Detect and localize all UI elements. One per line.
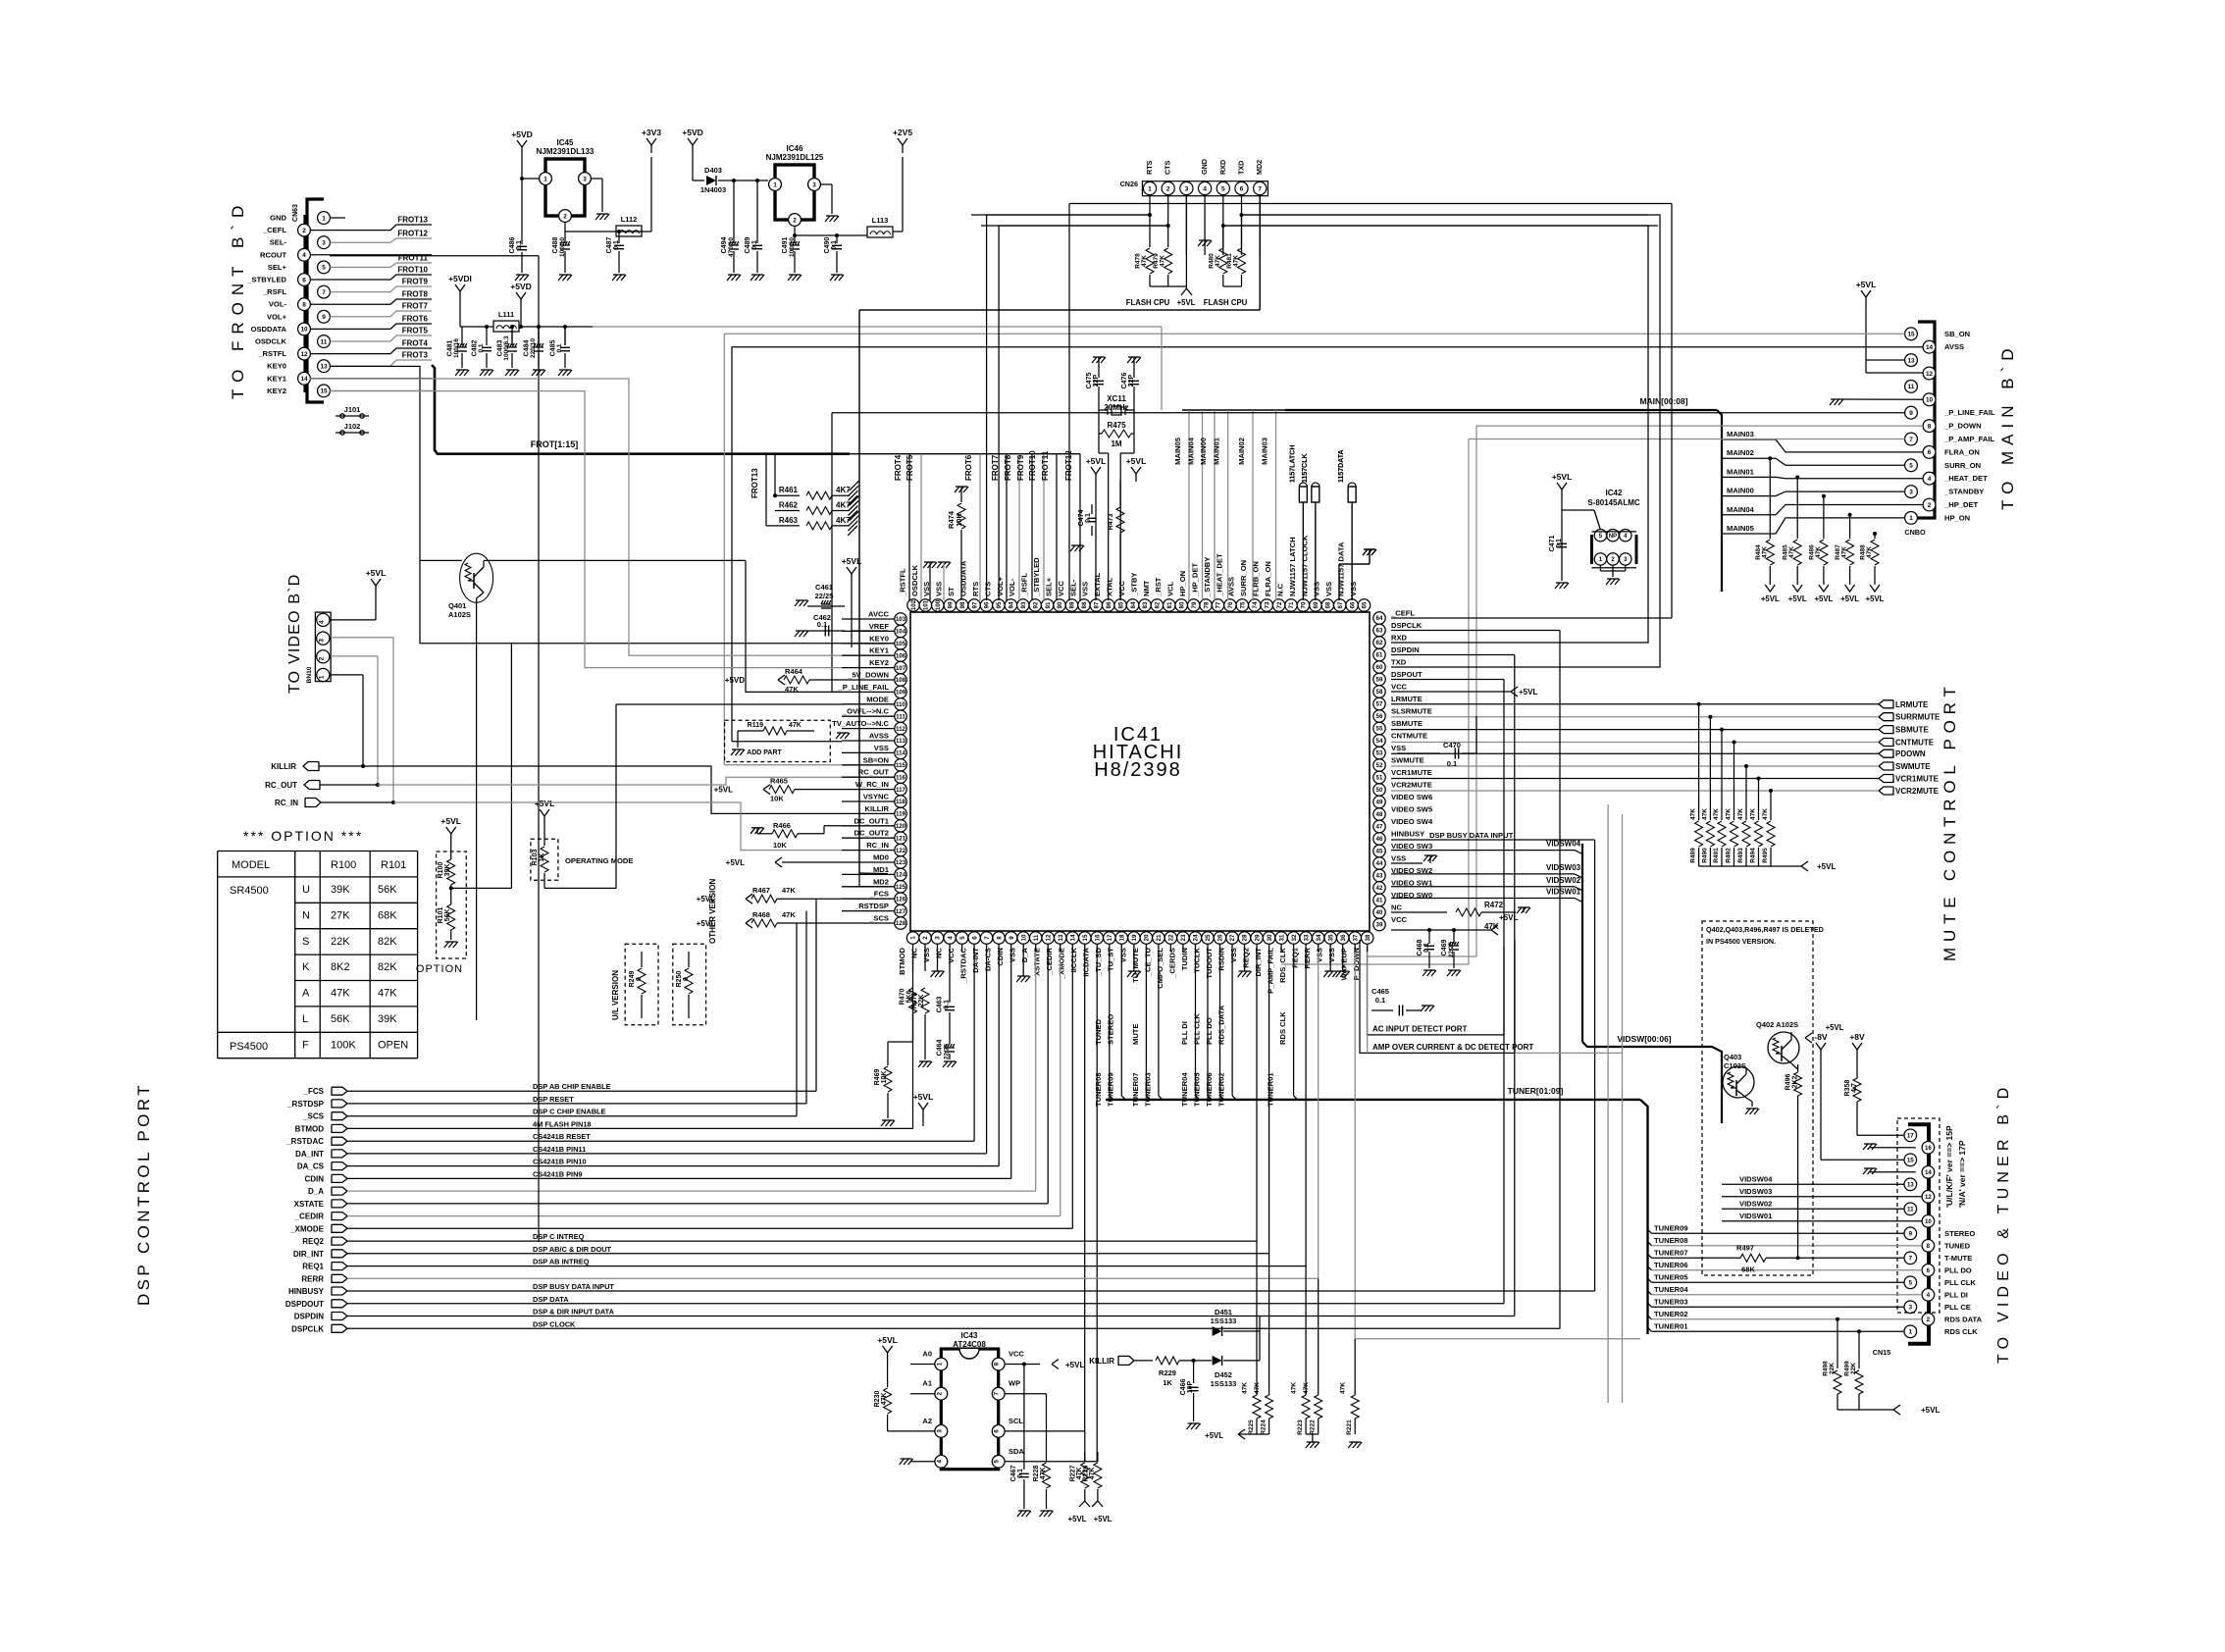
svg-text:MD1: MD1 [873,865,890,874]
svg-text:1: 1 [910,936,917,940]
svg-text:47K: 47K [331,988,350,1000]
svg-text:KILLIR: KILLIR [271,762,296,771]
svg-text:R103: R103 [532,850,539,866]
svg-text:470/10: 470/10 [728,237,735,257]
svg-text:_TU_SD: _TU_SD [1094,947,1103,977]
svg-text:32: 32 [1291,934,1298,941]
svg-text:82K: 82K [378,936,397,948]
svg-text:KEY2: KEY2 [869,658,889,667]
svg-text:55: 55 [1376,726,1383,733]
svg-text:_RSTDSP: _RSTDSP [286,1100,325,1109]
svg-text:VSS: VSS [1229,948,1238,962]
svg-text:XTAL: XTAL [1106,577,1114,596]
svg-text:14: 14 [300,376,308,383]
svg-text:DIR_INT: DIR_INT [293,1250,324,1259]
svg-text:FROT6: FROT6 [964,454,973,481]
svg-text:A: A [302,988,310,1000]
svg-text:VSS: VSS [874,744,889,752]
svg-text:102: 102 [910,599,917,610]
svg-text:KILLIR: KILLIR [865,804,890,813]
svg-text:SR4500: SR4500 [230,885,269,897]
svg-text:MAIN02: MAIN02 [1727,448,1754,457]
svg-text:OSDCLK: OSDCLK [910,564,919,596]
svg-text:47K: 47K [782,910,796,919]
svg-text:VCC: VCC [1057,580,1065,596]
svg-text:1K: 1K [1163,1378,1172,1387]
svg-text:38: 38 [1365,934,1371,941]
svg-text:_P_AMP_FAIL: _P_AMP_FAIL [1943,435,1994,443]
svg-text:+5VL: +5VL [726,858,745,867]
svg-text:12: 12 [300,351,308,358]
svg-text:DSP CONTROL PORT: DSP CONTROL PORT [134,1082,153,1306]
svg-text:IN PS4500 VERSION.: IN PS4500 VERSION. [1706,937,1776,946]
svg-text:44: 44 [1376,860,1383,867]
svg-text:R461: R461 [779,486,799,494]
svg-text:C470: C470 [1443,741,1461,749]
svg-text:3: 3 [318,639,325,643]
svg-text:4: 4 [318,620,325,624]
svg-text:RC_OUT: RC_OUT [858,768,890,777]
svg-text:WP: WP [1009,1379,1020,1388]
svg-text:8: 8 [1928,423,1932,430]
svg-text:75: 75 [1240,601,1247,608]
svg-text:125: 125 [896,884,906,891]
svg-text:R463: R463 [779,516,799,525]
svg-text:KEY2: KEY2 [267,387,286,395]
svg-text:22K: 22K [918,995,925,1007]
svg-text:NJM2391DL133: NJM2391DL133 [537,147,595,156]
svg-text:NJW1157 LATCH: NJW1157 LATCH [1288,537,1297,596]
svg-text:4: 4 [302,252,306,259]
svg-text:HINBUSY: HINBUSY [288,1287,325,1296]
svg-text:+5VL: +5VL [440,816,461,826]
svg-text:R229: R229 [1159,1368,1176,1377]
svg-text:F: F [302,1039,309,1051]
svg-text:66: 66 [1349,601,1356,608]
svg-text:SB=ON: SB=ON [863,755,889,764]
svg-text:PLL DO: PLL DO [1944,1265,1972,1274]
svg-text:R495: R495 [1762,848,1769,863]
svg-text:_P_DOWN: _P_DOWN [1943,422,1982,431]
svg-text:ST: ST [947,587,956,596]
svg-text:TUNER02: TUNER02 [1217,1072,1226,1107]
svg-text:23: 23 [1180,934,1187,941]
svg-text:47K: 47K [1713,808,1720,820]
svg-text:VCC: VCC [947,947,956,963]
svg-text:39K: 39K [331,884,350,896]
svg-text:CDIN: CDIN [996,948,1005,966]
svg-text:TO VIDEO & TUNER B`D: TO VIDEO & TUNER B`D [1995,1082,2012,1364]
svg-text:56: 56 [1376,713,1383,720]
svg-text:R472: R472 [1484,901,1504,909]
svg-text:_P_LINE_FAIL: _P_LINE_FAIL [1943,408,1995,417]
svg-text:9: 9 [1009,936,1015,940]
svg-text:0.1: 0.1 [613,240,620,250]
svg-text:PLL CE: PLL CE [1944,1303,1971,1312]
svg-text:AT24C08: AT24C08 [953,1340,986,1349]
svg-text:MD2: MD2 [873,877,889,886]
svg-text:RTS: RTS [971,582,980,596]
svg-text:10K: 10K [881,1071,888,1084]
svg-text:MODE: MODE [866,695,889,703]
svg-text:MAIN03: MAIN03 [1727,430,1754,439]
svg-text:1K: 1K [539,853,545,862]
svg-text:28: 28 [1242,934,1249,941]
svg-text:R469: R469 [874,1069,881,1086]
svg-text:R468: R468 [752,910,770,919]
svg-text:104: 104 [896,629,906,636]
svg-text:111: 111 [896,713,906,720]
svg-text:*** OPTION ***: *** OPTION *** [243,828,363,844]
svg-text:OPERATING MODE: OPERATING MODE [565,856,633,865]
svg-text:AMP OVER CURRENT & DC DETECT P: AMP OVER CURRENT & DC DETECT PORT [1372,1043,1533,1052]
svg-text:68: 68 [1325,601,1332,608]
svg-text:24: 24 [1193,934,1200,941]
svg-text:22K: 22K [1829,1363,1836,1374]
svg-text:13: 13 [1907,1182,1914,1189]
svg-text:C487: C487 [606,237,613,254]
svg-text:IICDATA: IICDATA [1082,947,1091,976]
svg-text:D403: D403 [704,166,722,175]
svg-text:0: 0 [636,977,643,981]
svg-text:100K: 100K [331,1039,356,1051]
svg-text:MAIN[00:08]: MAIN[00:08] [1639,396,1687,406]
svg-text:1157DATA: 1157DATA [1338,449,1345,483]
svg-text:OPEN: OPEN [378,1039,408,1051]
svg-text:1157LATCH: 1157LATCH [1289,445,1296,483]
svg-text:9: 9 [1909,410,1913,417]
svg-text:0.1: 0.1 [1447,759,1457,768]
svg-text:95: 95 [996,601,1003,608]
svg-text:96: 96 [984,601,991,608]
svg-text:12: 12 [1925,1194,1932,1201]
svg-text:47K: 47K [1254,1382,1261,1394]
svg-text:+5VD: +5VD [682,128,703,137]
svg-text:1SS133: 1SS133 [1211,1316,1237,1325]
svg-text:120: 120 [896,823,906,830]
svg-text:0.1: 0.1 [1556,539,1563,548]
svg-text:_XMODE: _XMODE [289,1224,324,1233]
svg-text:VCC: VCC [1391,915,1408,924]
svg-text:TUCLK: TUCLK [1192,947,1201,972]
svg-text:4M FLASH PIN18: 4M FLASH PIN18 [533,1119,592,1128]
svg-text:MAIN00: MAIN00 [1199,438,1208,465]
svg-text:10K: 10K [955,513,963,527]
svg-text:NJW1157 DATA: NJW1157 DATA [1337,542,1346,596]
svg-text:AVCC: AVCC [868,610,889,619]
svg-text:5: 5 [1599,534,1603,540]
svg-text:C468: C468 [1417,940,1423,956]
svg-text:22P: 22P [1128,374,1135,387]
svg-text:0.1: 0.1 [1423,943,1430,953]
svg-text:SWMUTE: SWMUTE [1391,756,1424,765]
svg-text:Q402 A102S: Q402 A102S [1756,1020,1798,1029]
svg-text:22P: 22P [1093,374,1100,387]
svg-text:TUNER08: TUNER08 [1094,1072,1103,1107]
svg-text:0.1: 0.1 [556,343,563,352]
svg-text:+5VL: +5VL [1126,456,1147,466]
svg-text:80: 80 [1178,601,1185,608]
svg-text:R475: R475 [1107,421,1126,430]
svg-text:PDOWN: PDOWN [1895,749,1926,758]
svg-text:FLRA_ON: FLRA_ON [1944,447,1980,456]
svg-text:TXD: TXD [1391,658,1407,667]
svg-text:KILLIR: KILLIR [1089,1357,1114,1366]
svg-text:DIR_INT: DIR_INT [1254,948,1263,977]
svg-text:FROT9: FROT9 [1016,454,1025,481]
svg-text:H8/2398: H8/2398 [1094,759,1182,781]
svg-text:VCR2MUTE: VCR2MUTE [1895,787,1940,796]
svg-text:107: 107 [896,665,906,672]
svg-text:R465: R465 [770,777,788,786]
svg-text:8: 8 [302,302,306,309]
svg-text:+5VL: +5VL [1499,913,1518,922]
svg-text:_OVFL-->N.C: _OVFL-->N.C [842,707,890,716]
svg-text:TUNER05: TUNER05 [1654,1272,1688,1281]
svg-text:45: 45 [1376,849,1383,855]
svg-text:R490: R490 [1701,848,1708,863]
svg-text:_RSTFL: _RSTFL [257,349,286,358]
svg-text:TUNER08: TUNER08 [1654,1236,1688,1245]
svg-text:SWMUTE: SWMUTE [1895,762,1931,771]
svg-text:47K: 47K [789,722,802,729]
svg-text:VSS: VSS [1349,582,1358,596]
svg-text:VIDSW01: VIDSW01 [1546,888,1581,897]
svg-text:C491: C491 [782,237,789,254]
svg-text:2K2: 2K2 [1792,1075,1799,1088]
svg-text:RDS CLK: RDS CLK [1278,1011,1287,1045]
svg-text:R489: R489 [1690,848,1697,863]
svg-text:27: 27 [1229,934,1236,941]
svg-text:46: 46 [1376,836,1383,843]
svg-text:NJW1157 CLOCK: NJW1157 CLOCK [1300,535,1309,596]
svg-text:OPTION: OPTION [416,963,463,975]
svg-text:21: 21 [1156,934,1163,941]
svg-text:A2: A2 [922,1417,932,1425]
svg-text:22K: 22K [331,936,350,948]
svg-text:86: 86 [1106,601,1112,608]
svg-text:51: 51 [1376,775,1383,782]
svg-text:+5VL: +5VL [1094,1515,1112,1523]
svg-text:+5VL: +5VL [1068,1515,1087,1523]
svg-text:_SCS: _SCS [302,1112,325,1121]
svg-text:RDS_DATA: RDS_DATA [1217,1005,1226,1045]
svg-text:DSP & DIR INPUT DATA: DSP & DIR INPUT DATA [533,1308,615,1316]
svg-text:R230: R230 [874,1391,881,1408]
svg-text:_RST: _RST [1154,577,1163,597]
svg-text:47K: 47K [1141,255,1148,267]
svg-text:FROT8: FROT8 [402,290,429,299]
svg-text:0: 0 [683,977,690,981]
svg-text:74: 74 [1252,601,1259,608]
svg-text:KEY1: KEY1 [869,646,890,655]
svg-text:DSPDOUT: DSPDOUT [285,1300,324,1309]
svg-text:CS4241B PIN10: CS4241B PIN10 [533,1158,587,1166]
svg-text:1: 1 [1909,515,1913,522]
svg-text:R119: R119 [748,722,763,729]
svg-text:R466: R466 [773,821,791,830]
svg-text:+5VL: +5VL [1761,594,1780,603]
svg-text:_P_LINE_FAIL: _P_LINE_FAIL [838,683,890,692]
svg-text:FROT13: FROT13 [750,468,759,498]
svg-text:CNBO: CNBO [1904,528,1926,537]
svg-text:85: 85 [1117,601,1124,608]
svg-text:R249: R249 [629,971,636,988]
svg-text:39: 39 [1376,922,1383,929]
svg-text:R491: R491 [1713,848,1720,863]
svg-text:11: 11 [1907,1207,1914,1213]
svg-text:56K: 56K [378,884,397,896]
svg-text:A102S: A102S [448,610,471,619]
svg-text:91: 91 [1045,601,1052,608]
svg-text:SCL: SCL [1009,1417,1023,1425]
svg-text:56K: 56K [444,909,451,922]
svg-text:+5VL: +5VL [535,799,555,808]
svg-text:4K7: 4K7 [836,486,851,494]
svg-text:VSS: VSS [1118,948,1127,962]
svg-text:DSPCLK: DSPCLK [291,1324,324,1333]
svg-text:-8V: -8V [1814,1032,1828,1042]
svg-text:31: 31 [1278,934,1285,941]
svg-text:0.1: 0.1 [831,240,838,250]
svg-text:R101: R101 [438,907,444,924]
svg-text:+2V5: +2V5 [893,128,912,137]
svg-text:6: 6 [1927,1267,1931,1274]
svg-text:124: 124 [896,872,906,879]
svg-text:NMT: NMT [1142,580,1151,596]
svg-text:22/25: 22/25 [815,592,834,600]
svg-text:0.1: 0.1 [1017,1469,1024,1478]
svg-text:DSP BUSY DATA INPUT: DSP BUSY DATA INPUT [1429,831,1514,840]
svg-text:47K: 47K [1303,1382,1310,1394]
svg-text:47K: 47K [1040,1468,1047,1480]
svg-text:_SCS: _SCS [868,914,889,923]
svg-text:33: 33 [1303,934,1310,941]
svg-text:Q401: Q401 [448,601,466,610]
svg-text:VIDSW[00:06]: VIDSW[00:06] [1617,1034,1671,1044]
svg-text:TUNER06: TUNER06 [1654,1261,1688,1269]
svg-text:_STANDBY: _STANDBY [1943,488,1984,496]
svg-text:VSS: VSS [1316,948,1324,962]
svg-text:4K7: 4K7 [836,516,851,525]
svg-text:VSYNC: VSYNC [863,793,890,801]
svg-text:FROT10: FROT10 [397,266,428,275]
svg-text:VOL+: VOL+ [267,312,287,321]
svg-text:TO MAIN B`D: TO MAIN B`D [1998,342,2017,510]
svg-text:C466: C466 [1180,1379,1187,1396]
svg-text:REQ2: REQ2 [302,1237,324,1246]
svg-text:AVSS: AVSS [869,732,889,741]
svg-text:CNTMUTE: CNTMUTE [1895,739,1935,748]
svg-text:65: 65 [1362,601,1369,608]
svg-text:1: 1 [1599,557,1603,563]
svg-text:5: 5 [994,1460,1001,1464]
svg-text:MD2: MD2 [1255,160,1264,175]
svg-text:11: 11 [1908,384,1915,390]
svg-text:CDIN: CDIN [304,1174,324,1183]
svg-text:PLL CLK: PLL CLK [1944,1278,1976,1287]
svg-text:C464: C464 [937,1040,944,1057]
svg-text:HINBUSY: HINBUSY [1391,830,1424,839]
svg-text:RCOUT: RCOUT [260,250,286,259]
svg-text:7: 7 [994,1391,1001,1395]
svg-text:6: 6 [971,936,978,940]
svg-text:18: 18 [1119,934,1126,941]
svg-text:AC INPUT DETECT PORT: AC INPUT DETECT PORT [1372,1025,1468,1034]
svg-text:128: 128 [896,920,906,927]
svg-text:88: 88 [1081,601,1088,608]
svg-text:PS4500: PS4500 [230,1041,268,1053]
svg-text:15: 15 [320,388,328,395]
svg-text:CTS: CTS [1164,160,1172,175]
svg-text:RC_IN: RC_IN [866,841,889,850]
svg-text:123: 123 [896,859,906,866]
svg-text:U/L VERSION: U/L VERSION [611,970,620,1020]
svg-text:1000/6.3: 1000/6.3 [503,336,510,361]
svg-text:MAIN04: MAIN04 [1187,437,1196,465]
svg-text:C102S: C102S [1724,1061,1746,1070]
svg-text:MAIN01: MAIN01 [1727,467,1755,476]
svg-text:NC: NC [935,947,944,957]
svg-text:_HEAT_DET: _HEAT_DET [1943,474,1988,483]
svg-text:MAIN02: MAIN02 [1237,438,1246,465]
svg-text:VCC: VCC [1009,1350,1024,1359]
svg-text:SURR_ON: SURR_ON [1944,461,1981,470]
svg-text:VSS: VSS [922,948,931,962]
svg-text:47K: 47K [881,1393,888,1406]
svg-text:VIDSW04: VIDSW04 [1546,840,1581,849]
svg-text:_RSTDAC: _RSTDAC [959,947,968,983]
svg-text:C489: C489 [745,237,751,254]
svg-text:+3V3: +3V3 [642,128,661,137]
svg-text:2: 2 [302,228,306,234]
svg-text:7: 7 [1258,185,1262,192]
svg-text:L: L [302,1013,308,1025]
svg-text:FROT4: FROT4 [402,339,429,348]
svg-text:_RSTDSP: _RSTDSP [854,902,889,910]
svg-text:PLL CLK: PLL CLK [1192,1013,1201,1045]
svg-text:RXD: RXD [1218,160,1227,175]
svg-text:16: 16 [1095,934,1102,941]
svg-text:39K: 39K [378,1013,397,1025]
svg-text:+5VL: +5VL [1519,688,1537,697]
svg-text:KEY1: KEY1 [267,374,287,383]
svg-text:127: 127 [896,908,906,915]
svg-text:VSS: VSS [1313,582,1321,596]
svg-text:98: 98 [959,601,966,608]
svg-text:A1: A1 [922,1379,932,1388]
svg-text:100/10: 100/10 [559,237,566,257]
svg-text:Q402,Q403,R496,R497 IS DELETED: Q402,Q403,R496,R497 IS DELETED [1706,925,1824,934]
svg-text:37: 37 [1352,934,1359,941]
svg-text:89: 89 [1069,601,1076,608]
svg-text:C474: C474 [1078,510,1085,527]
svg-text:47K: 47K [1089,1468,1096,1480]
svg-text:MD0: MD0 [873,853,889,862]
svg-text:_STANDBY: _STANDBY [1203,557,1212,597]
svg-text:20: 20 [1144,934,1151,941]
svg-text:2: 2 [1927,1316,1931,1323]
svg-text:5: 5 [322,265,326,272]
svg-text:FROT4: FROT4 [894,454,903,481]
svg-text:4: 4 [936,1460,943,1464]
svg-text:TUNER04: TUNER04 [1180,1072,1189,1107]
svg-text:VCC: VCC [1391,683,1408,692]
svg-text:FROT11: FROT11 [1041,450,1050,481]
svg-text:C465: C465 [1371,987,1389,996]
svg-text:6: 6 [302,277,306,284]
svg-text:TO VIDEO B`D: TO VIDEO B`D [286,573,303,694]
